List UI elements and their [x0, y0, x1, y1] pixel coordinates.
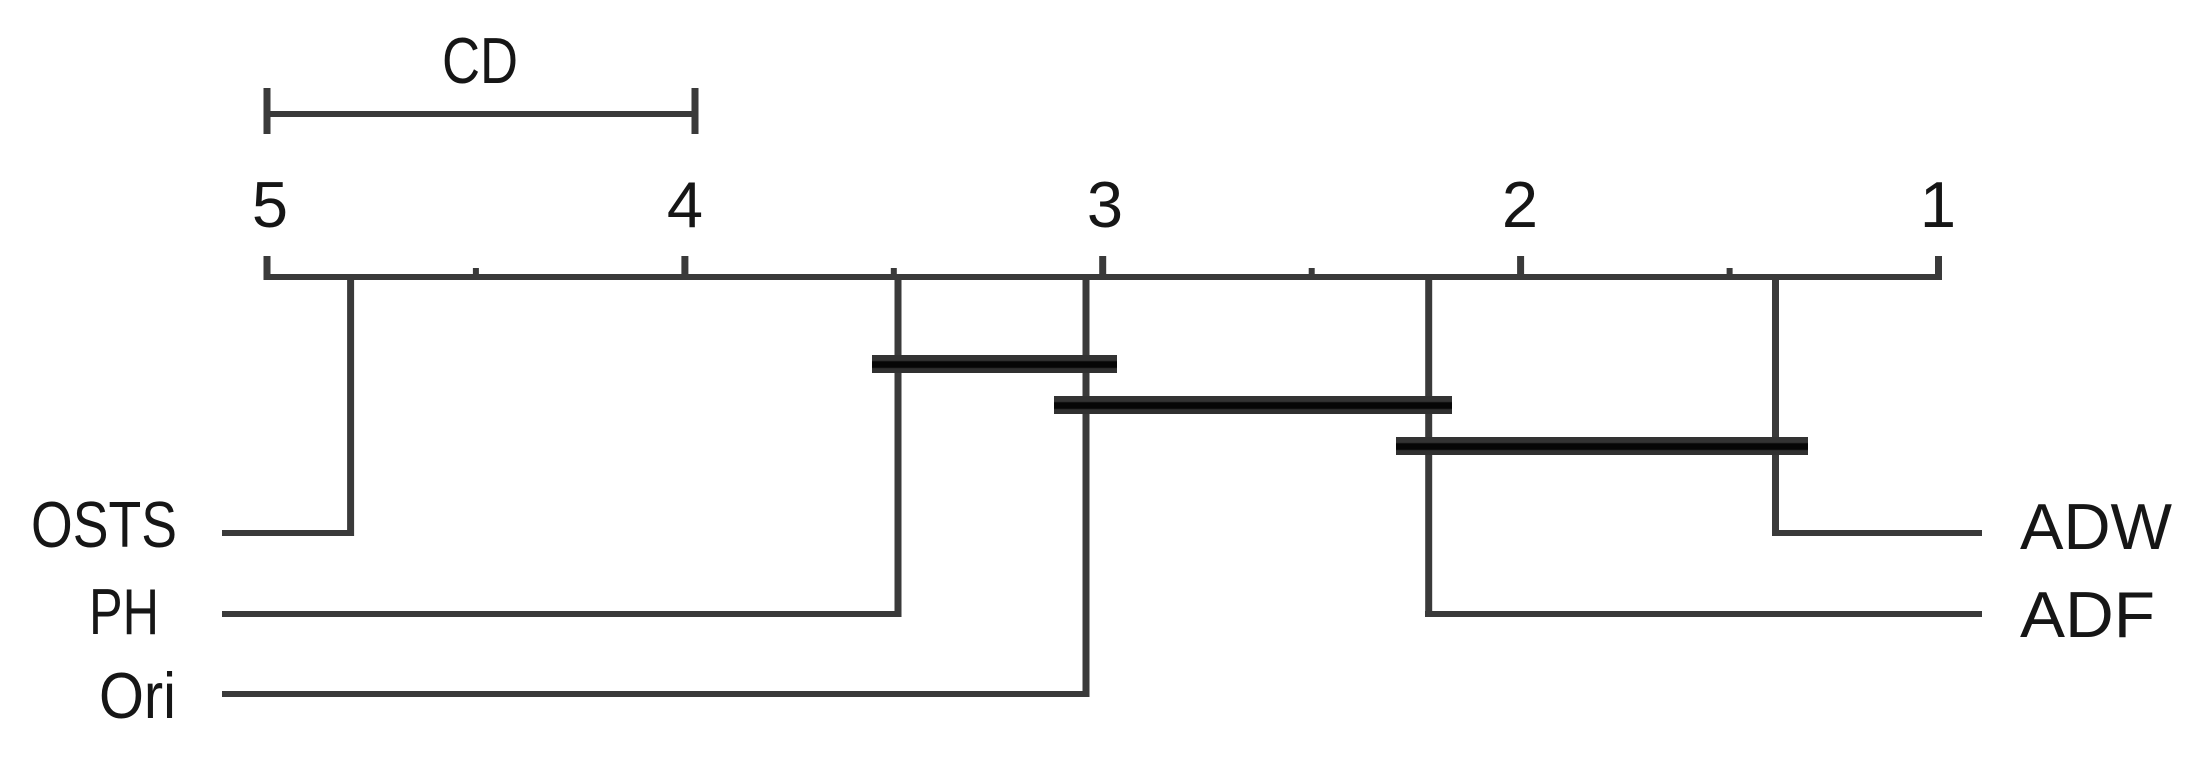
svg-text:CD: CD	[442, 24, 518, 97]
svg-text:PH: PH	[89, 575, 159, 648]
svg-text:4: 4	[667, 168, 703, 241]
svg-text:2: 2	[1502, 168, 1538, 241]
ADF connector line	[1425, 611, 1982, 617]
minor tick 2.5	[1309, 268, 1315, 280]
minor tick 4.5	[473, 268, 479, 280]
svg-text:OSTS: OSTS	[31, 488, 177, 561]
minor tick 1.5	[1727, 268, 1733, 280]
CD interval bar	[264, 111, 698, 117]
major tick 5	[264, 256, 271, 280]
major tick 4	[681, 256, 688, 280]
clique bar ADF-ADW	[1396, 437, 1808, 455]
major tick 2	[1517, 256, 1524, 280]
OSTS drop line	[347, 274, 354, 536]
PH drop line	[895, 274, 902, 617]
Ori drop line	[1083, 274, 1090, 697]
svg-text:3: 3	[1087, 168, 1123, 241]
CD interval left cap	[264, 88, 271, 134]
OSTS connector line	[222, 530, 354, 536]
clique bar Ori-ADF	[1054, 396, 1452, 414]
svg-text:Ori: Ori	[99, 659, 176, 732]
major tick 1	[1935, 256, 1942, 280]
axis line	[264, 274, 1941, 280]
svg-text:1: 1	[1920, 168, 1956, 241]
major tick 3	[1099, 256, 1106, 280]
ADF drop line	[1425, 274, 1432, 617]
CD interval right cap	[692, 88, 699, 134]
ADW drop line	[1772, 274, 1779, 536]
ADW connector line	[1772, 530, 1982, 536]
PH connector line	[222, 611, 901, 617]
svg-text:ADW: ADW	[2020, 490, 2173, 563]
minor tick 3.5	[891, 268, 897, 280]
Ori connector line	[222, 691, 1089, 697]
svg-text:5: 5	[252, 168, 288, 241]
svg-text:ADF: ADF	[2020, 578, 2155, 651]
clique bar PH-Ori	[872, 355, 1117, 373]
